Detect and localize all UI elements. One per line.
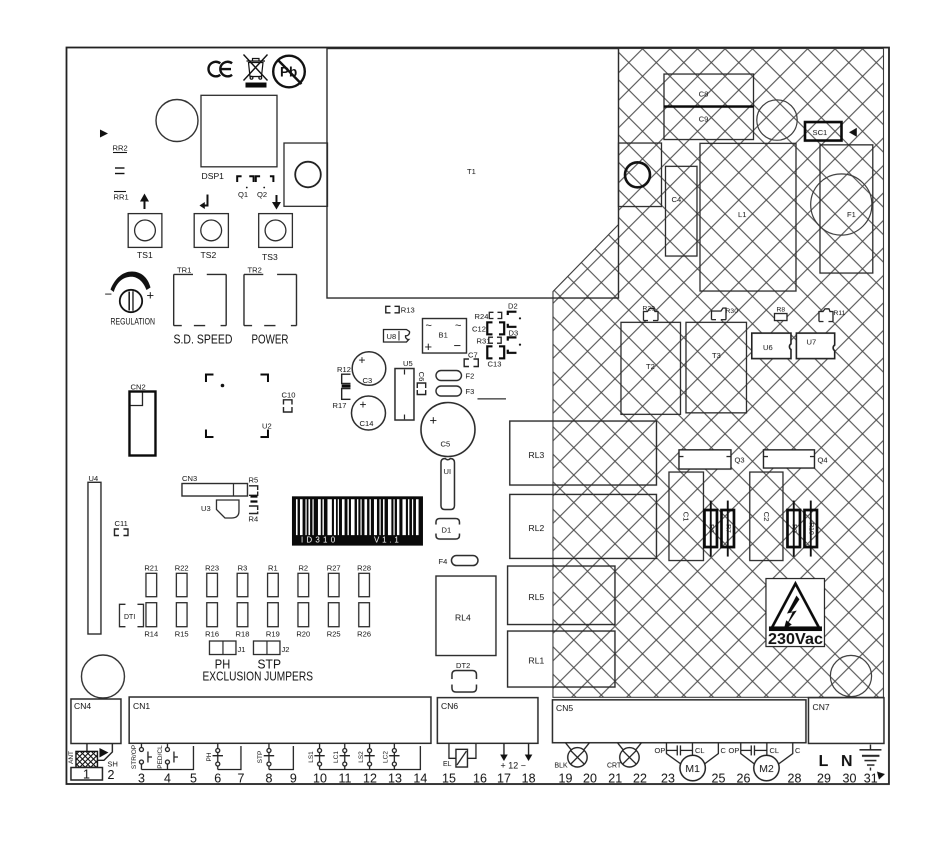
svg-text:OP: OP [728, 746, 739, 755]
svg-text:19: 19 [558, 772, 572, 786]
capacitor C6 [417, 372, 426, 395]
svg-text:UI: UI [443, 467, 451, 476]
limit switch LS2 contact (pin 12) [364, 743, 374, 769]
svg-text:−: − [453, 338, 461, 353]
svg-text:R15: R15 [175, 630, 189, 639]
svg-text:Q1: Q1 [238, 190, 248, 199]
svg-text:R19: R19 [266, 630, 280, 639]
relay RL4 [436, 576, 496, 656]
svg-text:EXCLUSION JUMPERS: EXCLUSION JUMPERS [202, 670, 313, 684]
svg-text:R17: R17 [332, 401, 346, 410]
earth ground symbol [859, 745, 881, 771]
svg-text:R6: R6 [707, 524, 714, 533]
svg-text:M1: M1 [685, 763, 700, 775]
svg-text:C10: C10 [281, 391, 295, 400]
svg-text:TR1: TR1 [177, 265, 191, 274]
resistor R11 [819, 309, 846, 322]
svg-text:N: N [841, 753, 853, 770]
svg-text:CN5: CN5 [556, 703, 573, 713]
resistor R21 [144, 564, 158, 597]
motor M2 wiring [741, 743, 793, 766]
push button TS2 [194, 214, 228, 248]
IC U8 [383, 330, 409, 343]
svg-text:RR1: RR1 [113, 193, 128, 202]
svg-text:R29: R29 [642, 306, 655, 313]
svg-text:L: L [819, 753, 829, 770]
transformer T1 [327, 49, 619, 299]
svg-text:CL: CL [769, 746, 779, 755]
svg-text:R1: R1 [268, 564, 278, 573]
svg-text:CN3: CN3 [182, 474, 197, 483]
fuse F3 [436, 386, 474, 396]
capacitor C15 pads [250, 497, 257, 502]
transformer T3 [686, 322, 747, 413]
svg-text:8: 8 [265, 772, 272, 786]
resistor R30 [711, 308, 738, 320]
relay RL3 [510, 421, 657, 485]
capacitor C12 [472, 322, 504, 334]
svg-text:R13: R13 [401, 306, 415, 315]
IC U3 [201, 500, 239, 518]
transformer T2 [621, 322, 681, 414]
svg-text:13: 13 [388, 772, 402, 786]
antenna pad ANT [68, 744, 98, 768]
svg-text:11: 11 [338, 772, 351, 786]
svg-text:28: 28 [787, 772, 801, 786]
svg-text:3: 3 [138, 772, 145, 786]
resistor R5 [248, 476, 258, 496]
svg-text:~: ~ [425, 320, 431, 332]
svg-text:1: 1 [83, 768, 90, 782]
svg-text:R23: R23 [205, 564, 219, 573]
svg-text:+: + [424, 339, 432, 354]
svg-text:LS1: LS1 [308, 751, 315, 763]
connector CN1 [129, 697, 431, 743]
svg-text:R2: R2 [298, 564, 308, 573]
mounting tab with hole [284, 143, 328, 206]
svg-text:J1: J1 [237, 645, 245, 654]
svg-text:15: 15 [442, 772, 456, 786]
U2 dot [221, 384, 225, 388]
trimmer knob [120, 290, 142, 312]
svg-text:+: + [429, 413, 437, 428]
up arrow above TS1 [140, 194, 149, 210]
resistor R25 [327, 603, 341, 639]
svg-text:POWER: POWER [251, 332, 288, 347]
mounting hole bottom-left [81, 655, 124, 698]
svg-text:CN7: CN7 [812, 702, 829, 712]
motor M1 [680, 755, 705, 780]
svg-text:TR2: TR2 [247, 265, 261, 274]
fuse F2 [436, 371, 474, 381]
svg-text:C7: C7 [468, 351, 478, 360]
svg-text:C11: C11 [114, 519, 127, 528]
motor M1 wiring [666, 743, 718, 766]
mounting hole top-left [156, 100, 198, 142]
svg-text:R5: R5 [248, 476, 258, 485]
connector CN4 [71, 699, 121, 744]
down arrow above TS3 [272, 195, 281, 210]
connector CN6 [437, 698, 538, 744]
svg-text:10: 10 [313, 772, 327, 786]
Pb-free mark [273, 56, 305, 88]
display DSP1 [201, 95, 277, 167]
resistor R16 [205, 603, 219, 639]
input STP contact (pin 8) [264, 743, 274, 769]
svg-text:CN6: CN6 [441, 701, 458, 711]
optocoupler U6 [752, 333, 791, 359]
wire segment [477, 398, 506, 400]
resistor R23 [205, 564, 219, 597]
svg-text:R21: R21 [144, 564, 158, 573]
svg-text:C14: C14 [359, 419, 373, 428]
fuse F4 [438, 556, 478, 567]
connector CN5 [552, 700, 806, 743]
svg-text:D3: D3 [508, 328, 518, 337]
fiducial frame U2 [206, 375, 268, 438]
svg-text:7: 7 [237, 772, 244, 786]
svg-text:R12: R12 [337, 365, 351, 374]
svg-text:CN1: CN1 [133, 701, 150, 711]
svg-text:U3: U3 [201, 504, 211, 513]
resistor RR1 label [113, 192, 128, 202]
svg-text:ID310: ID310 [301, 536, 338, 545]
svg-text:R18: R18 [235, 630, 249, 639]
svg-text:23: 23 [661, 772, 675, 786]
svg-text:DTI: DTI [124, 614, 135, 621]
svg-text:F1: F1 [847, 210, 856, 219]
230Vac warning box [766, 579, 825, 649]
WEEE black bar [245, 83, 266, 88]
optocoupler U7 [796, 333, 834, 359]
svg-text:16: 16 [473, 772, 487, 786]
pin 1 box [71, 768, 103, 782]
IC U5 [395, 359, 414, 420]
svg-text:R11: R11 [833, 310, 845, 317]
svg-text:R30: R30 [725, 308, 738, 315]
high-voltage hatched zone [553, 49, 884, 698]
resistor R7 [721, 501, 734, 557]
svg-text:T2: T2 [646, 362, 655, 371]
svg-text:C: C [720, 746, 726, 755]
mounting hole near C9 [757, 100, 797, 140]
svg-text:R3: R3 [238, 564, 248, 573]
mounting hole bottom-right [830, 655, 871, 696]
svg-text:9: 9 [290, 772, 297, 786]
svg-text:BLK: BLK [554, 763, 568, 770]
connector CN3 [182, 474, 248, 496]
svg-text:R26: R26 [357, 630, 371, 639]
svg-text:30: 30 [842, 772, 856, 786]
input STR/OP contact (pin 3) [139, 743, 152, 769]
fuse F1 [811, 145, 873, 273]
connector CN2 [129, 383, 155, 456]
svg-text:C1: C1 [681, 512, 690, 522]
svg-text:C2: C2 [762, 512, 771, 522]
svg-text:F2: F2 [465, 372, 474, 381]
shield wire SH [98, 744, 118, 769]
svg-text:TS3: TS3 [262, 252, 278, 262]
svg-text:U6: U6 [763, 343, 773, 352]
resistor R24 [474, 312, 501, 321]
motor M2 [754, 755, 779, 780]
svg-text:PED/CL: PED/CL [157, 745, 164, 769]
svg-text:230Vac: 230Vac [768, 631, 823, 648]
diode DT2 [452, 661, 477, 692]
svg-text:RL3: RL3 [528, 450, 544, 460]
enter arrow above TS2 [199, 195, 207, 210]
CE mark [208, 62, 232, 77]
svg-text:2: 2 [107, 768, 114, 782]
common wire pins 10-14 [320, 746, 421, 770]
svg-text:DT2: DT2 [456, 661, 470, 670]
capacitor C11 [114, 519, 128, 536]
inductor L1 [700, 143, 796, 291]
svg-text:D1: D1 [441, 526, 451, 535]
svg-text:U8: U8 [386, 332, 396, 341]
svg-text:R16: R16 [205, 630, 219, 639]
connector CN7 [808, 698, 884, 744]
resistor R3 [237, 564, 248, 597]
svg-text:RL5: RL5 [528, 592, 544, 602]
svg-text:J2: J2 [281, 645, 289, 654]
capacitor C14 [351, 396, 385, 430]
svg-text:R24: R24 [474, 312, 488, 321]
svg-text:LS2: LS2 [358, 751, 365, 763]
svg-text:29: 29 [817, 772, 831, 786]
svg-text:TS1: TS1 [137, 250, 153, 260]
resistor R13 [386, 306, 415, 315]
varistor SC1 [805, 122, 842, 141]
diode DT1 [119, 604, 143, 626]
svg-text:V1.1: V1.1 [374, 536, 402, 545]
common wire pins 3-5 [141, 746, 193, 770]
resistor R15 [175, 603, 189, 639]
svg-text:B1: B1 [438, 331, 447, 340]
12V output arrows (pins 17 18) [500, 743, 532, 770]
regulator U1 [441, 459, 455, 510]
svg-text:R8: R8 [776, 307, 785, 314]
resistor R6 [704, 501, 717, 557]
svg-text:Q3: Q3 [734, 456, 744, 465]
svg-text:C12: C12 [472, 325, 486, 334]
svg-text:M2: M2 [759, 763, 774, 775]
svg-text:PH: PH [206, 752, 213, 761]
svg-text:C: C [795, 746, 801, 755]
resistor R31 [476, 337, 501, 346]
PCB board outline [66, 48, 889, 785]
resistor R10 [804, 501, 817, 557]
courtesy lamp CRT (pins 21-22) [607, 743, 642, 770]
diode D2 [508, 302, 521, 327]
blinker lamp BLK (pins 19-20) [554, 743, 589, 770]
battery B1 [422, 319, 466, 355]
resistor R1 [268, 564, 279, 597]
input PH contact (pin 6) [213, 743, 223, 769]
capacitor C3 [352, 352, 386, 386]
svg-text:5: 5 [190, 772, 197, 786]
svg-text:R28: R28 [357, 564, 371, 573]
input PED/CL contact (pin 4) [165, 743, 178, 769]
svg-text:C5: C5 [440, 440, 450, 449]
limit switch LC1 contact (pin 11) [340, 743, 350, 769]
svg-text:U2: U2 [262, 422, 272, 431]
resistor R22 [175, 564, 189, 597]
svg-text:C3: C3 [362, 376, 372, 385]
transistor Q1 pads [237, 176, 253, 182]
svg-text:C13: C13 [487, 360, 501, 369]
svg-text:CL: CL [695, 746, 705, 755]
svg-text:RL1: RL1 [528, 656, 544, 666]
svg-text:R10: R10 [807, 522, 814, 535]
resistor R27 [327, 564, 341, 597]
svg-text:REGULATION: REGULATION [110, 317, 155, 328]
svg-text:T1: T1 [467, 167, 476, 176]
svg-text:EL: EL [443, 761, 452, 768]
common wire pins 8-9 [269, 746, 293, 770]
capacitor C4 [665, 166, 697, 256]
svg-text:18: 18 [522, 772, 536, 786]
resistor R2 [298, 564, 309, 597]
resistor RR2 label [112, 144, 127, 153]
svg-text:20: 20 [583, 772, 597, 786]
svg-text:L1: L1 [738, 210, 746, 219]
svg-text:22: 22 [633, 772, 647, 786]
relay RL5 [508, 566, 615, 625]
pin 31 arrow marker [877, 772, 885, 780]
svg-text:T3: T3 [712, 351, 721, 360]
svg-text:R14: R14 [144, 630, 158, 639]
capacitor C8 / C9 block [664, 74, 754, 140]
svg-text:C4: C4 [671, 195, 681, 204]
svg-text:26: 26 [736, 772, 750, 786]
resistor R14 [144, 603, 158, 639]
svg-text:R7: R7 [724, 524, 731, 533]
ANT arrow marker [99, 748, 108, 758]
svg-text:CN4: CN4 [74, 701, 91, 711]
svg-text:STP: STP [257, 751, 264, 764]
trimmer REGULATION knob arc [110, 272, 150, 293]
svg-text:RR2: RR2 [112, 144, 127, 153]
svg-text:C8: C8 [699, 90, 709, 99]
svg-text:STR/OP: STR/OP [131, 745, 138, 769]
capacitor C5 [421, 403, 475, 457]
svg-text:17: 17 [497, 772, 511, 786]
trimmer TR1 [174, 274, 227, 325]
svg-text:31: 31 [864, 772, 878, 786]
svg-text:C9: C9 [699, 115, 709, 124]
arrow marker near SC1 [849, 128, 857, 137]
svg-text:TS2: TS2 [200, 250, 216, 260]
svg-text:R9: R9 [790, 524, 797, 533]
capacitor C1 [669, 472, 704, 561]
RR jumper pads [115, 168, 125, 174]
svg-text:Q4: Q4 [817, 456, 827, 465]
capacitor C10 [281, 391, 295, 413]
svg-text:−: − [104, 287, 112, 302]
svg-text:+: + [358, 353, 365, 367]
svg-text:~: ~ [455, 320, 461, 332]
svg-text:6: 6 [214, 772, 221, 786]
svg-text:F4: F4 [438, 557, 447, 566]
jumper J1 [209, 641, 245, 655]
resistor R20 [296, 603, 310, 639]
trimmer TR2 [244, 274, 297, 325]
WEEE crossed-out bin symbol [243, 55, 267, 81]
limit switch LS1 contact (pin 10) [314, 743, 324, 769]
resistor R18 [235, 603, 249, 639]
svg-text:CN2: CN2 [130, 383, 145, 392]
resistor R8 [774, 307, 787, 321]
svg-text:+: + [146, 288, 154, 303]
svg-text:25: 25 [711, 772, 725, 786]
svg-text:R27: R27 [327, 564, 341, 573]
limit switch LC2 contact (pin 13) [389, 743, 399, 769]
resistor R28 [357, 564, 371, 597]
capacitor C13 [487, 346, 504, 368]
svg-text:D2: D2 [508, 302, 518, 311]
svg-text:21: 21 [608, 772, 622, 786]
jumper J2 [253, 641, 289, 655]
electric lock EL [443, 743, 476, 768]
relay RL2 [510, 494, 657, 558]
svg-text:LC1: LC1 [333, 751, 340, 763]
svg-text:RL2: RL2 [528, 523, 544, 533]
svg-text:OP: OP [654, 746, 665, 755]
svg-text:S.D. SPEED: S.D. SPEED [173, 332, 232, 347]
resistor R4 [248, 506, 258, 524]
svg-text:Q2: Q2 [257, 190, 267, 199]
capacitor C2 [750, 472, 783, 561]
svg-text:12: 12 [363, 772, 377, 786]
resistor R19 [266, 603, 280, 639]
svg-text:4: 4 [164, 772, 171, 786]
svg-text:+: + [359, 398, 366, 412]
svg-text:14: 14 [413, 772, 427, 786]
resistor R29 [642, 306, 658, 321]
svg-text:SC1: SC1 [812, 128, 827, 137]
svg-text:RL4: RL4 [455, 613, 471, 623]
resistor R26 [357, 603, 371, 639]
svg-text:ANT: ANT [68, 751, 75, 764]
svg-text:R22: R22 [175, 564, 189, 573]
IC U4 [88, 474, 101, 634]
svg-text:U7: U7 [806, 338, 816, 347]
push button TS3 [259, 214, 293, 248]
diode D3 [508, 328, 521, 353]
svg-text:R20: R20 [296, 630, 310, 639]
relay RL1 [508, 631, 615, 687]
svg-text:CRT: CRT [607, 763, 622, 770]
push button TS1 [128, 214, 162, 248]
svg-text:+ 12 −: + 12 − [500, 761, 526, 771]
svg-text:C6: C6 [417, 372, 426, 382]
fiducial arrow [100, 130, 108, 138]
mounting tab with hole (hatched zone) [618, 143, 661, 207]
capacitor C7 [464, 351, 478, 367]
triac Q3 [679, 450, 745, 469]
barcode label ID310 V1.1 [292, 496, 423, 545]
svg-text:F3: F3 [465, 387, 474, 396]
transistor Q2 pads [256, 176, 274, 182]
svg-text:U5: U5 [403, 359, 413, 368]
svg-text:DSP1: DSP1 [201, 171, 224, 181]
diode D1 [436, 519, 460, 540]
resistor R9 [787, 501, 800, 557]
svg-text:LC2: LC2 [383, 751, 390, 763]
svg-text:R25: R25 [327, 630, 341, 639]
common wire pins 6-7 [218, 746, 241, 770]
